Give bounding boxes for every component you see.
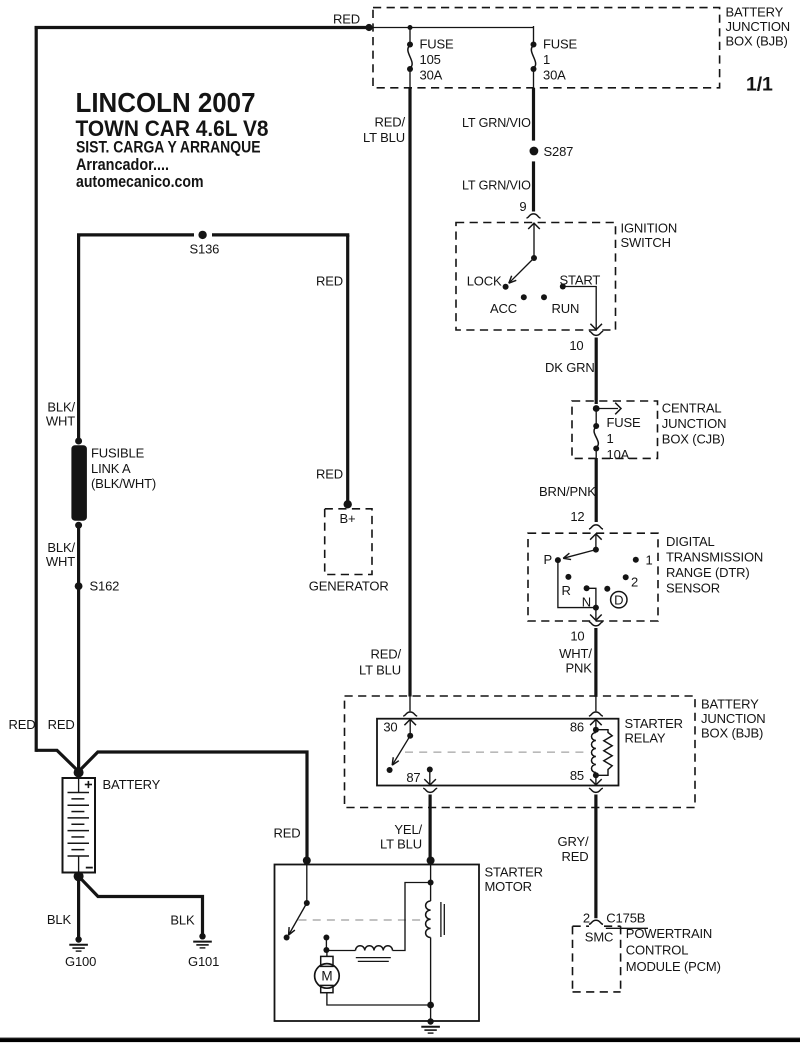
svg-text:BOX (CJB): BOX (CJB) [662, 432, 725, 447]
svg-text:87: 87 [406, 770, 420, 785]
svg-text:2: 2 [631, 575, 638, 590]
svg-text:RED: RED [316, 274, 343, 289]
svg-text:POWERTRAIN: POWERTRAIN [626, 926, 712, 941]
svg-text:MOTOR: MOTOR [485, 879, 532, 894]
svg-text:BLK/: BLK/ [47, 540, 75, 555]
svg-text:LT BLU: LT BLU [380, 837, 422, 852]
svg-text:FUSE: FUSE [607, 415, 642, 430]
svg-text:LT BLU: LT BLU [359, 663, 401, 678]
svg-text:RED: RED [274, 826, 301, 841]
svg-text:RED: RED [333, 12, 360, 27]
svg-text:MODULE (PCM): MODULE (PCM) [626, 959, 721, 974]
svg-text:30A: 30A [420, 68, 443, 83]
svg-text:10A: 10A [607, 447, 630, 462]
svg-text:RED: RED [9, 717, 36, 732]
svg-text:BLK: BLK [47, 912, 72, 927]
svg-text:IGNITION: IGNITION [621, 221, 678, 236]
svg-text:9: 9 [519, 199, 526, 214]
svg-text:BRN/PNK: BRN/PNK [539, 484, 596, 499]
svg-text:P: P [543, 552, 552, 567]
svg-text:YEL/: YEL/ [394, 822, 422, 837]
svg-text:S136: S136 [190, 242, 220, 257]
svg-text:BLK: BLK [170, 913, 195, 928]
svg-text:CENTRAL: CENTRAL [662, 401, 722, 416]
svg-text:10: 10 [570, 629, 584, 644]
svg-text:BATTERY: BATTERY [726, 5, 784, 20]
svg-text:85: 85 [570, 768, 584, 783]
svg-text:RED: RED [562, 849, 589, 864]
svg-text:S162: S162 [90, 579, 120, 594]
svg-text:105: 105 [420, 52, 441, 67]
svg-text:RELAY: RELAY [625, 731, 666, 746]
svg-text:DIGITAL: DIGITAL [666, 534, 715, 549]
svg-text:2: 2 [583, 911, 590, 926]
svg-text:86: 86 [570, 720, 584, 735]
svg-text:BLK/: BLK/ [47, 400, 75, 415]
svg-text:SENSOR: SENSOR [666, 581, 720, 596]
svg-text:WHT/: WHT/ [559, 646, 592, 661]
svg-text:R: R [562, 583, 571, 598]
svg-text:LT GRN/VIO: LT GRN/VIO [462, 115, 531, 130]
svg-text:SIST. CARGA Y ARRANQUE: SIST. CARGA Y ARRANQUE [76, 137, 261, 156]
svg-text:LT BLU: LT BLU [363, 130, 405, 145]
svg-text:30: 30 [383, 720, 397, 735]
svg-text:12: 12 [570, 509, 584, 524]
svg-text:PNK: PNK [566, 661, 593, 676]
svg-text:RUN: RUN [552, 301, 580, 316]
svg-text:RED: RED [48, 717, 75, 732]
svg-text:DK GRN: DK GRN [545, 360, 595, 375]
svg-text:D: D [614, 592, 623, 607]
svg-text:JUNCTION: JUNCTION [662, 416, 727, 431]
svg-text:GENERATOR: GENERATOR [309, 579, 389, 594]
svg-text:CONTROL: CONTROL [626, 943, 689, 958]
svg-text:STARTER: STARTER [485, 865, 543, 880]
svg-text:WHT: WHT [46, 554, 75, 569]
svg-text:START: START [560, 273, 601, 288]
svg-text:1: 1 [607, 431, 614, 446]
svg-text:RED: RED [316, 467, 343, 482]
svg-text:BOX (BJB): BOX (BJB) [701, 726, 763, 741]
svg-text:SWITCH: SWITCH [621, 235, 671, 250]
svg-text:M: M [321, 969, 332, 984]
svg-text:N: N [582, 595, 591, 610]
svg-text:WHT: WHT [46, 414, 75, 429]
svg-text:S287: S287 [544, 144, 574, 159]
svg-text:LINK A: LINK A [91, 461, 131, 476]
svg-text:G101: G101 [188, 954, 219, 969]
svg-text:G100: G100 [65, 954, 96, 969]
svg-text:RANGE (DTR): RANGE (DTR) [666, 565, 750, 580]
svg-text:LT GRN/VIO: LT GRN/VIO [462, 178, 531, 193]
svg-text:LOCK: LOCK [467, 274, 502, 289]
svg-text:(BLK/WHT): (BLK/WHT) [91, 476, 156, 491]
svg-text:FUSIBLE: FUSIBLE [91, 446, 145, 461]
svg-text:LINCOLN 2007: LINCOLN 2007 [76, 87, 256, 118]
svg-text:FUSE: FUSE [420, 37, 455, 52]
svg-text:ACC: ACC [490, 301, 517, 316]
svg-text:RED/: RED/ [371, 647, 402, 662]
svg-text:1: 1 [646, 553, 653, 568]
svg-text:GRY/: GRY/ [558, 834, 589, 849]
svg-text:automecanico.com: automecanico.com [76, 172, 204, 191]
svg-text:C175B: C175B [606, 911, 645, 926]
svg-text:1/1: 1/1 [746, 74, 773, 96]
svg-text:BATTERY: BATTERY [103, 777, 161, 792]
svg-text:10: 10 [569, 338, 583, 353]
svg-text:BOX (BJB): BOX (BJB) [726, 34, 788, 49]
svg-text:1: 1 [543, 52, 550, 67]
svg-text:B+: B+ [340, 511, 356, 526]
svg-text:JUNCTION: JUNCTION [726, 19, 791, 34]
svg-text:RED/: RED/ [375, 114, 406, 129]
svg-text:TRANSMISSION: TRANSMISSION [666, 550, 763, 565]
svg-text:STARTER: STARTER [625, 716, 683, 731]
svg-text:JUNCTION: JUNCTION [701, 711, 766, 726]
svg-text:FUSE: FUSE [543, 37, 578, 52]
svg-text:30A: 30A [543, 68, 566, 83]
svg-text:SMC: SMC [585, 930, 613, 945]
svg-text:BATTERY: BATTERY [701, 697, 759, 712]
